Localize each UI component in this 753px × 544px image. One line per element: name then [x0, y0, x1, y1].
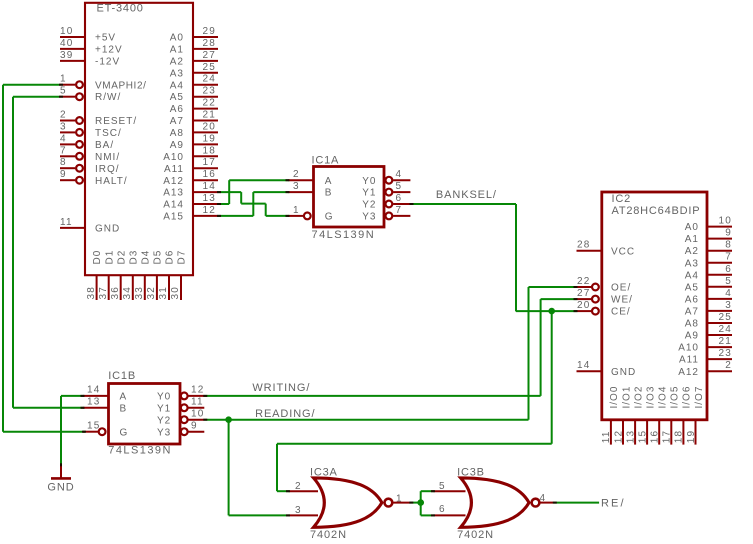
svg-text:25: 25 [202, 62, 216, 73]
svg-text:20: 20 [577, 300, 591, 311]
svg-text:A2: A2 [170, 57, 184, 68]
svg-text:A3: A3 [170, 68, 184, 79]
svg-text:74LS139N: 74LS139N [108, 444, 172, 456]
svg-text:10: 10 [60, 26, 74, 37]
svg-text:TSC/: TSC/ [95, 128, 122, 139]
svg-text:Y3: Y3 [157, 427, 171, 438]
wire VMAPHI2/ from ET-3400 pin 1 to IC1B pin 15 G [3, 85, 86, 432]
svg-text:+5V: +5V [95, 33, 116, 44]
svg-text:31: 31 [158, 286, 169, 300]
node junction at IC3B input split [417, 499, 424, 506]
ET-3400 pin 23 A5 [170, 86, 218, 104]
ET-3400 pin 20 A8 [170, 121, 218, 139]
IC1B pin 10 output Y2 [157, 409, 205, 427]
svg-text:14: 14 [577, 360, 591, 371]
svg-text:+12V: +12V [95, 45, 123, 56]
svg-text:11: 11 [191, 397, 204, 408]
svg-text:4: 4 [540, 493, 547, 504]
svg-text:9: 9 [725, 228, 732, 239]
svg-text:GND: GND [47, 481, 74, 493]
svg-text:A12: A12 [163, 176, 184, 187]
svg-text:39: 39 [60, 50, 74, 61]
svg-text:A0: A0 [685, 222, 699, 233]
IC1B pin 14 input A [83, 385, 127, 403]
svg-text:7: 7 [60, 145, 67, 156]
svg-text:IC1A: IC1A [312, 155, 340, 167]
svg-text:24: 24 [202, 74, 216, 85]
IC2 pin 14 GND [577, 360, 637, 378]
IC1B pin 9 output Y3 [157, 421, 204, 439]
label READING/ [255, 408, 315, 420]
label RE/ [601, 497, 626, 509]
ET-3400 pin 17 A11 [164, 157, 218, 175]
IC3A pin 3 input [289, 505, 318, 516]
ET-3400 pin 14 A13 [163, 181, 218, 199]
IC2 pin 7 A3 [685, 252, 732, 270]
ET-3400 pin 27 A2 [170, 50, 218, 68]
svg-text:7402N: 7402N [457, 529, 494, 541]
svg-text:A8: A8 [170, 128, 184, 139]
svg-text:A6: A6 [170, 104, 184, 115]
IC1B pin 11 output Y1 [157, 397, 204, 415]
svg-text:A15: A15 [163, 212, 184, 223]
svg-text:17: 17 [662, 430, 673, 444]
svg-text:A: A [120, 392, 128, 403]
svg-text:4: 4 [725, 288, 732, 299]
ET-3400 pin 12 A15 [163, 205, 218, 223]
IC2 pin 3 A7 [685, 300, 732, 318]
svg-text:G: G [325, 212, 334, 223]
IC1A pin 2 input A [288, 169, 332, 187]
svg-text:D0: D0 [92, 250, 103, 265]
svg-text:21: 21 [718, 336, 732, 347]
svg-text:ET-3400: ET-3400 [97, 3, 144, 15]
ET-3400 pin 30 D7 [170, 250, 187, 300]
IC2 pin 2 A12 [678, 360, 732, 378]
IC1B pin 13 input B [83, 397, 127, 415]
wire GND net from IC1B pin 14 A to ground [61, 396, 85, 467]
svg-text:27: 27 [202, 50, 216, 61]
svg-text:6: 6 [396, 193, 403, 204]
IC2 pin 21 A10 [678, 336, 732, 354]
svg-text:I/O3: I/O3 [645, 386, 656, 409]
svg-text:3: 3 [60, 121, 67, 132]
IC1A pin 7 output Y3 [362, 205, 410, 223]
svg-text:17: 17 [202, 157, 216, 168]
svg-text:3: 3 [295, 505, 302, 516]
svg-text:VMAPHI2/: VMAPHI2/ [95, 80, 146, 91]
ET-3400 pin 33 D4 [134, 250, 151, 300]
svg-text:29: 29 [202, 26, 216, 37]
svg-text:24: 24 [718, 324, 732, 335]
svg-text:4: 4 [396, 169, 403, 180]
ET-3400 pin 16 A12 [163, 169, 218, 187]
svg-text:A5: A5 [685, 282, 699, 293]
IC2 pin 13 I/O2 [625, 386, 644, 445]
ET-3400 pin 38 D0 [86, 250, 103, 300]
svg-text:3: 3 [725, 300, 732, 311]
IC2 pin 11 I/O0 [601, 386, 620, 445]
IC2 pin 20 CE/ [577, 300, 631, 318]
svg-text:IC1B: IC1B [108, 370, 136, 382]
svg-text:32: 32 [146, 286, 157, 300]
svg-text:5: 5 [439, 481, 446, 492]
wire BANKSEL/ from IC1A pin 6 Y2 to IC2 pin 20 CE/ [410, 204, 578, 311]
svg-text:D1: D1 [104, 250, 115, 265]
svg-text:6: 6 [439, 504, 446, 515]
svg-text:14: 14 [202, 181, 216, 192]
svg-text:A9: A9 [170, 140, 184, 151]
node junction on CE/ net [548, 308, 555, 315]
NOR gate IC3B body (7402N) [457, 467, 539, 541]
ET-3400 pin 29 A0 [170, 26, 218, 44]
svg-text:A3: A3 [685, 258, 699, 269]
IC2 pin 15 I/O3 [637, 386, 656, 445]
svg-text:I/O2: I/O2 [633, 386, 644, 409]
svg-text:WE/: WE/ [611, 295, 633, 306]
svg-text:-12V: -12V [95, 57, 120, 68]
svg-text:2: 2 [725, 360, 732, 371]
IC1A pin 5 output Y1 [362, 181, 410, 199]
svg-text:A0: A0 [170, 33, 184, 44]
svg-text:Y2: Y2 [157, 415, 171, 426]
svg-text:RESET/: RESET/ [95, 116, 137, 127]
svg-text:GND: GND [95, 224, 120, 235]
IC2 pin 10 A0 [685, 216, 732, 234]
svg-text:A4: A4 [685, 270, 699, 281]
label WRITING/ [252, 382, 310, 394]
label BANKSEL/ [436, 189, 497, 201]
ET-3400 pin 13 A14 [163, 193, 218, 211]
svg-text:2: 2 [295, 481, 302, 492]
ET-3400 pin 2 RESET/ [60, 110, 137, 128]
ET-3400 pin 36 D2 [110, 250, 127, 300]
ET-3400 pin 31 D6 [158, 250, 175, 300]
IC1A 74LS139N decoder body [312, 155, 385, 242]
svg-text:1: 1 [293, 205, 300, 216]
svg-text:18: 18 [674, 430, 685, 444]
svg-text:D3: D3 [128, 250, 139, 265]
IC3B pin 5 input [434, 481, 466, 492]
IC2 pin 28 VCC [577, 240, 636, 258]
svg-text:23: 23 [202, 86, 216, 97]
svg-text:6: 6 [725, 264, 732, 275]
IC1A pin 3 input B [288, 181, 332, 199]
svg-text:22: 22 [577, 276, 591, 287]
svg-text:OE/: OE/ [611, 283, 631, 294]
svg-text:D6: D6 [165, 250, 176, 265]
svg-text:13: 13 [625, 430, 636, 444]
svg-text:IC3B: IC3B [457, 467, 485, 479]
svg-text:Y1: Y1 [362, 188, 376, 199]
IC1B pin 12 output Y0 [157, 385, 205, 403]
IC2 pin 5 A5 [685, 276, 732, 294]
ET-3400 pin 40 +12V [60, 38, 123, 56]
svg-text:13: 13 [87, 397, 101, 408]
svg-text:A6: A6 [685, 295, 699, 306]
svg-text:7: 7 [396, 205, 403, 216]
node junction on READING/ net [225, 416, 232, 423]
svg-text:AT28HC64BDIP: AT28HC64BDIP [612, 205, 701, 217]
ET-3400 pin 25 A3 [170, 62, 218, 80]
svg-text:13: 13 [202, 193, 216, 204]
svg-text:28: 28 [202, 38, 216, 49]
wire A13 from ET-3400 pin 14 to IC1A pin 1 G [217, 192, 290, 216]
svg-text:I/O0: I/O0 [609, 386, 620, 409]
IC3B pin 6 input [434, 504, 466, 515]
svg-text:IC3A: IC3A [310, 467, 338, 479]
svg-text:D4: D4 [140, 250, 151, 265]
svg-text:B: B [120, 403, 128, 414]
svg-text:A7: A7 [685, 307, 699, 318]
svg-text:A5: A5 [170, 92, 184, 103]
svg-text:D5: D5 [153, 250, 164, 265]
svg-text:Y2: Y2 [362, 200, 376, 211]
svg-text:BANKSEL/: BANKSEL/ [436, 189, 497, 201]
wire R/W/ from ET-3400 pin 5 to IC1B pin 13 B [13, 97, 85, 408]
svg-text:16: 16 [650, 430, 661, 444]
svg-text:CE/: CE/ [611, 307, 631, 318]
svg-text:Y0: Y0 [362, 176, 376, 187]
svg-text:4: 4 [60, 133, 67, 144]
svg-text:A12: A12 [678, 367, 699, 378]
svg-text:R/W/: R/W/ [95, 92, 121, 103]
svg-text:READING/: READING/ [255, 408, 315, 420]
ET-3400 pin 28 A1 [170, 38, 218, 56]
svg-text:19: 19 [202, 133, 216, 144]
svg-text:G: G [120, 427, 129, 438]
ET-3400 pin 19 A9 [170, 133, 218, 151]
svg-text:A13: A13 [163, 188, 184, 199]
svg-text:9: 9 [191, 421, 198, 432]
svg-text:36: 36 [110, 286, 121, 300]
svg-text:RE/: RE/ [601, 497, 626, 509]
svg-text:A2: A2 [685, 246, 699, 257]
svg-text:A14: A14 [163, 200, 184, 211]
svg-text:5: 5 [396, 181, 403, 192]
svg-text:37: 37 [98, 286, 109, 300]
wire A14 from ET-3400 pin 13 to IC1A pin 2 A [217, 180, 290, 204]
svg-text:38: 38 [86, 286, 97, 300]
svg-text:GND: GND [611, 367, 636, 378]
ET-3400 pin 18 A10 [163, 145, 218, 163]
IC2 pin 23 A11 [679, 348, 732, 366]
ET-3400 pin 4 BA/ [60, 133, 114, 151]
svg-text:5: 5 [725, 276, 732, 287]
ET-3400 pin 21 A7 [170, 110, 218, 128]
svg-text:D2: D2 [116, 250, 127, 265]
IC3A pin 2 input [289, 481, 318, 492]
svg-text:WRITING/: WRITING/ [252, 382, 310, 394]
svg-text:A11: A11 [164, 164, 184, 175]
svg-text:2: 2 [60, 110, 67, 121]
svg-text:A7: A7 [170, 116, 184, 127]
svg-text:27: 27 [577, 288, 591, 299]
svg-text:IRQ/: IRQ/ [95, 164, 120, 175]
IC2 pin 9 A1 [685, 228, 732, 246]
svg-text:A10: A10 [678, 343, 699, 354]
svg-text:34: 34 [122, 286, 133, 300]
ET-3400 pin 9 HALT/ [60, 169, 128, 187]
IC2 AT28HC64BDIP EEPROM body [602, 192, 707, 420]
svg-text:30: 30 [170, 286, 181, 300]
IC2 pin 18 I/O6 [674, 386, 693, 445]
svg-text:1: 1 [396, 493, 403, 504]
svg-text:14: 14 [87, 385, 101, 396]
IC1B pin 15 input G enable [83, 421, 128, 439]
svg-text:I/O6: I/O6 [682, 386, 693, 409]
svg-text:1: 1 [60, 74, 67, 85]
IC2 pin 16 I/O4 [650, 386, 669, 445]
svg-text:I/O1: I/O1 [621, 386, 632, 409]
svg-text:11: 11 [60, 217, 73, 228]
IC2 pin 17 I/O5 [662, 386, 681, 445]
IC3B pin 4 output [539, 493, 554, 504]
IC1A pin 6 output Y2 [362, 193, 410, 211]
wire READING/ branch from junction to IC3A pin 3 [229, 420, 290, 516]
svg-text:74LS139N: 74LS139N [312, 229, 376, 241]
svg-text:HALT/: HALT/ [95, 176, 128, 187]
svg-text:10: 10 [191, 409, 205, 420]
svg-text:15: 15 [87, 421, 101, 432]
svg-text:33: 33 [134, 286, 145, 300]
svg-text:Y1: Y1 [157, 403, 171, 414]
ET-3400 pin 37 D1 [98, 250, 115, 300]
ET-3400 pin 11 GND [60, 217, 120, 235]
svg-text:A: A [325, 176, 333, 187]
svg-text:16: 16 [202, 169, 216, 180]
svg-text:5: 5 [60, 86, 67, 97]
svg-text:A8: A8 [685, 319, 699, 330]
ET-3400 pin 24 A4 [170, 74, 218, 92]
ET-3400 pin 3 TSC/ [60, 121, 122, 139]
wire A15 from ET-3400 pin 12 to IC1A pin 3 B [217, 192, 290, 216]
svg-text:18: 18 [202, 145, 216, 156]
wire READING/ from IC1B pin 10 Y2 to IC2 pin 22 OE/ [203, 287, 577, 420]
svg-text:12: 12 [202, 205, 216, 216]
svg-text:A10: A10 [163, 152, 184, 163]
svg-text:I/O4: I/O4 [658, 386, 669, 409]
IC1A pin 4 output Y0 [362, 169, 410, 187]
IC3A pin 1 output [391, 493, 410, 504]
ET-3400 pin 8 IRQ/ [60, 157, 120, 175]
IC2 pin 24 A9 [685, 324, 732, 342]
IC2 pin 4 A6 [685, 288, 732, 306]
svg-text:15: 15 [637, 430, 648, 444]
svg-text:8: 8 [60, 157, 67, 168]
IC2 pin 6 A4 [685, 264, 732, 282]
svg-text:11: 11 [601, 430, 612, 443]
svg-text:28: 28 [577, 240, 591, 251]
svg-text:23: 23 [718, 348, 732, 359]
svg-text:Y3: Y3 [362, 212, 376, 223]
wire RE/ from IC3B pin 4 output [553, 502, 599, 504]
svg-text:A1: A1 [685, 234, 699, 245]
svg-text:BA/: BA/ [95, 140, 114, 151]
svg-text:D7: D7 [177, 250, 188, 265]
IC2 pin 12 I/O1 [613, 386, 632, 445]
svg-text:25: 25 [718, 312, 732, 323]
svg-text:I/O7: I/O7 [694, 386, 705, 409]
svg-text:19: 19 [686, 430, 697, 444]
ET-3400 pin 22 A6 [170, 98, 218, 116]
svg-text:B: B [325, 188, 333, 199]
svg-text:40: 40 [60, 38, 74, 49]
ET-3400 pin 34 D3 [122, 250, 139, 300]
ET-3400 pin 39 -12V [60, 50, 120, 68]
svg-text:IC2: IC2 [612, 193, 632, 205]
svg-text:A11: A11 [679, 355, 699, 366]
IC2 pin 19 I/O7 [686, 386, 705, 445]
svg-text:I/O5: I/O5 [670, 386, 681, 409]
svg-text:21: 21 [202, 110, 216, 121]
IC2 pin 8 A2 [685, 240, 732, 258]
svg-text:A1: A1 [170, 45, 184, 56]
svg-text:9: 9 [60, 169, 67, 180]
svg-text:20: 20 [202, 121, 216, 132]
IC2 pin 25 A8 [685, 312, 732, 330]
IC1A pin 1 input G enable [288, 205, 333, 223]
svg-text:3: 3 [293, 181, 300, 192]
svg-text:NMI/: NMI/ [95, 152, 120, 163]
svg-text:A4: A4 [170, 80, 184, 91]
svg-text:10: 10 [718, 216, 732, 227]
svg-text:7402N: 7402N [310, 529, 347, 541]
svg-text:A9: A9 [685, 331, 699, 342]
ET-3400 pin 32 D5 [146, 250, 163, 300]
ET-3400 pin 7 NMI/ [60, 145, 120, 163]
svg-text:12: 12 [613, 430, 624, 444]
svg-text:2: 2 [293, 169, 300, 180]
NOR gate IC3A body (7402N) [310, 467, 392, 541]
IC1B 74LS139N decoder body [108, 370, 180, 457]
svg-text:8: 8 [725, 240, 732, 251]
svg-text:Y0: Y0 [157, 392, 171, 403]
wire from IC3A pin 1 output to IC3B inputs [409, 491, 435, 515]
svg-text:22: 22 [202, 98, 216, 109]
ET-3400 pin 10 +5V [60, 26, 116, 44]
ET-3400 pin 5 R/W/ [60, 86, 121, 104]
wire CE/ net from junction down to IC3A pin 2 [277, 311, 552, 491]
svg-text:VCC: VCC [611, 246, 635, 257]
IC2 pin 22 OE/ [577, 276, 632, 294]
svg-text:7: 7 [725, 252, 732, 263]
ET-3400 pin 1 VMAPHI2/ [60, 74, 146, 92]
ground symbol GND [47, 466, 74, 493]
svg-text:12: 12 [191, 385, 205, 396]
IC ET-3400 body [85, 3, 193, 276]
wire WRITING/ from IC1B pin 12 Y0 to IC2 pin 27 WE/ [203, 299, 577, 396]
IC2 pin 27 WE/ [577, 288, 633, 306]
